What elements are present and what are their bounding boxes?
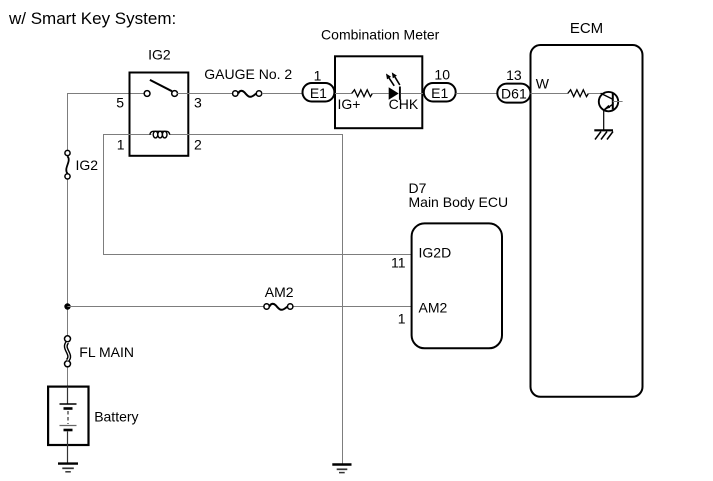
wire: pin2 vertical down to ground xyxy=(342,134,344,464)
svg-text:Combination Meter: Combination Meter xyxy=(321,27,440,43)
svg-text:AM2: AM2 xyxy=(265,284,294,300)
FL MAIN fusible link squiggle (double line) xyxy=(66,342,69,360)
wire inside ECM to resistor xyxy=(531,93,568,95)
LED CHK xyxy=(389,87,399,99)
relay switch contact left xyxy=(144,91,150,97)
IG2 fusible link circles xyxy=(65,150,70,155)
resistor comb meter xyxy=(352,90,373,97)
svg-text:2: 2 xyxy=(194,137,202,153)
ground (battery) xyxy=(58,462,78,464)
svg-text:3: 3 xyxy=(194,95,202,111)
wire: coil line pin1 to pin2 xyxy=(103,134,151,136)
connector D61 pin 13 xyxy=(497,84,530,103)
wire: left vertical battery feed upper xyxy=(67,93,69,151)
relay switch contact right xyxy=(172,91,178,97)
battery box xyxy=(48,387,88,445)
battery cell plates xyxy=(60,403,77,405)
svg-text:IG2D: IG2D xyxy=(419,245,452,261)
wire: IG2D vertical from pin1 xyxy=(103,134,105,255)
svg-text:5: 5 xyxy=(116,95,124,111)
svg-text:W: W xyxy=(536,76,550,92)
fuse GAUGE No. 2 xyxy=(233,91,238,96)
svg-text:Battery: Battery xyxy=(94,409,138,425)
LED arrow 2 xyxy=(395,77,400,85)
svg-text:E1: E1 xyxy=(310,85,327,101)
relay IG2 box xyxy=(130,73,189,156)
wire: left vertical between IG2 fuse and FL MAIN xyxy=(67,179,69,336)
node junction AM2 branch xyxy=(64,303,70,309)
svg-text:E1: E1 xyxy=(431,85,448,101)
ground (ECM, slash style) xyxy=(594,129,613,131)
wire AM2 horizontal xyxy=(68,306,264,308)
wire resistor to LED xyxy=(372,93,389,95)
battery internal wire bottom to ground xyxy=(67,431,69,463)
IG2 fusible link squiggle xyxy=(66,156,68,173)
battery internal wire top xyxy=(67,387,69,404)
svg-text:1: 1 xyxy=(398,311,406,327)
svg-text:IG2: IG2 xyxy=(148,47,171,63)
svg-text:10: 10 xyxy=(434,67,450,83)
wire: fuse to E1 xyxy=(262,93,303,95)
connector E1 pin 1 xyxy=(303,83,335,102)
resistor ECM xyxy=(568,90,589,97)
svg-text:13: 13 xyxy=(506,67,522,83)
svg-text:1: 1 xyxy=(117,137,125,153)
svg-text:Main Body ECU: Main Body ECU xyxy=(409,194,509,210)
svg-text:ECM: ECM xyxy=(570,20,603,37)
svg-text:GAUGE No. 2: GAUGE No. 2 xyxy=(204,66,292,82)
LED arrow 1 xyxy=(389,78,394,86)
wire LED to box edge xyxy=(401,93,424,95)
wire E1 to D61 xyxy=(456,93,498,95)
FL MAIN fusible link circles xyxy=(65,336,71,342)
ground (pin2 wire) xyxy=(332,463,351,465)
svg-text:D61: D61 xyxy=(501,85,527,101)
wire transistor emitter down xyxy=(603,110,605,130)
fuse AM2 xyxy=(264,304,269,309)
svg-text:AM2: AM2 xyxy=(419,300,448,316)
connector E1 pin 10 xyxy=(424,83,456,102)
wire: pin3 to fuse xyxy=(177,93,232,95)
Main Body ECU box xyxy=(412,223,502,348)
svg-text:1: 1 xyxy=(314,68,322,84)
combination meter box xyxy=(335,56,422,128)
svg-text:IG2: IG2 xyxy=(76,157,99,173)
svg-text:11: 11 xyxy=(391,255,406,271)
svg-text:IG+: IG+ xyxy=(338,96,361,112)
transistor Q (ECM) xyxy=(599,92,618,111)
svg-text:CHK: CHK xyxy=(389,96,419,112)
relay coil xyxy=(153,131,158,138)
ECM box xyxy=(531,45,643,397)
svg-text:FL MAIN: FL MAIN xyxy=(79,344,134,360)
wire inside comb meter xyxy=(335,93,352,95)
wire resistor to transistor xyxy=(588,93,603,95)
wire: battery feed horizontal to relay pin 5 xyxy=(68,93,145,95)
svg-text:w/ Smart Key System:: w/ Smart Key System: xyxy=(8,9,176,28)
wire: IG2D horizontal to Main Body ECU xyxy=(103,254,412,256)
relay switch blade xyxy=(150,80,172,91)
wire: left vertical FL MAIN to battery xyxy=(67,367,69,405)
